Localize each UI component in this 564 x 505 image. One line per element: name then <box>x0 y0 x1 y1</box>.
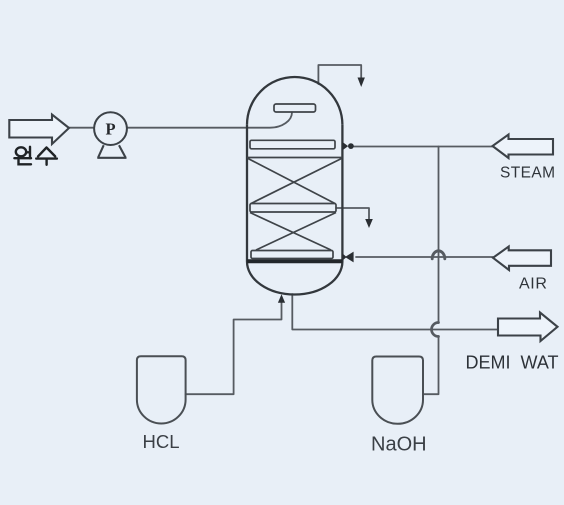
svg-text:STEAM: STEAM <box>500 165 555 182</box>
svg-text:AIR: AIR <box>519 276 547 293</box>
svg-text:WAT: WAT <box>521 353 559 373</box>
svg-text:P: P <box>105 119 115 138</box>
svg-text:HCL: HCL <box>143 431 180 452</box>
svg-text:NaOH: NaOH <box>371 434 427 456</box>
svg-text:DEMI: DEMI <box>466 353 511 373</box>
